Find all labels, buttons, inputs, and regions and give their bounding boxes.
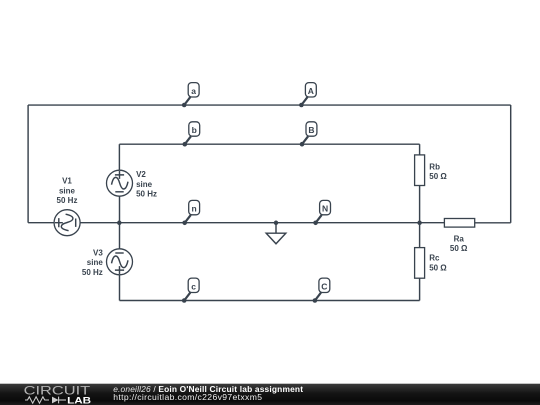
resistor Rb bbox=[415, 155, 425, 186]
svg-text:b: b bbox=[192, 125, 197, 135]
node a bbox=[182, 83, 199, 108]
resistor Rc bbox=[415, 248, 425, 279]
wire V2 top bbox=[118, 144, 120, 170]
wire Rb bottom bbox=[419, 186, 421, 223]
svg-text:V3: V3 bbox=[93, 248, 103, 257]
svg-text:A: A bbox=[308, 86, 314, 96]
junction at ground bbox=[274, 221, 279, 226]
svg-text:50 Ω: 50 Ω bbox=[429, 172, 447, 181]
wire net a top horizontal bbox=[28, 104, 511, 106]
svg-text:N: N bbox=[322, 204, 328, 214]
svg-text:Rc: Rc bbox=[429, 254, 440, 263]
wire Rc bottom bbox=[419, 278, 421, 300]
junction at Rb/Rc/Ra node bbox=[417, 221, 422, 226]
svg-text:50 Ω: 50 Ω bbox=[429, 263, 447, 272]
voltage source V1 bbox=[54, 210, 80, 236]
footer bar bbox=[0, 384, 540, 405]
voltage source V3 bbox=[107, 249, 133, 275]
ground bbox=[266, 223, 286, 244]
wire net n horizontal bbox=[80, 222, 444, 224]
svg-text:http://circuitlab.com/c226v97e: http://circuitlab.com/c226v97etxxm5 bbox=[113, 392, 262, 402]
wire Rc top bbox=[419, 223, 421, 248]
node B bbox=[300, 122, 317, 147]
svg-text:V2: V2 bbox=[136, 170, 146, 179]
voltage source V2 bbox=[107, 170, 133, 196]
svg-text:50 Ω: 50 Ω bbox=[450, 244, 468, 253]
node N bbox=[313, 200, 330, 225]
svg-text:c: c bbox=[191, 281, 196, 291]
svg-text:50 Hz: 50 Hz bbox=[136, 190, 157, 199]
wire V3 bottom bbox=[119, 275, 121, 301]
svg-text:a: a bbox=[191, 86, 196, 96]
logo zigzag and diode bbox=[25, 397, 66, 404]
svg-text:C: C bbox=[321, 281, 327, 291]
node c bbox=[182, 278, 199, 303]
resistor Ra bbox=[444, 219, 474, 228]
svg-text:50 Hz: 50 Hz bbox=[57, 196, 78, 205]
node n bbox=[182, 200, 199, 225]
wire net b horizontal bbox=[119, 143, 419, 145]
svg-text:V1: V1 bbox=[62, 177, 72, 186]
wire net c horizontal bbox=[120, 300, 420, 302]
junction at V1/V2/V3 node bbox=[117, 221, 122, 226]
node b bbox=[183, 122, 200, 147]
wire left vertical bbox=[27, 105, 29, 223]
svg-text:B: B bbox=[308, 125, 314, 135]
svg-text:n: n bbox=[192, 204, 197, 214]
wire Rb top bbox=[419, 144, 421, 155]
svg-text:sine: sine bbox=[136, 180, 153, 189]
wire V2 bottom to V3 top bbox=[119, 196, 121, 249]
wire V1 left bbox=[28, 222, 54, 224]
wire right vertical bbox=[510, 105, 512, 223]
node A bbox=[299, 83, 316, 108]
node C bbox=[313, 278, 330, 303]
svg-text:sine: sine bbox=[59, 186, 76, 195]
wire Ra right bbox=[475, 222, 511, 224]
svg-text:Rb: Rb bbox=[429, 162, 440, 171]
svg-text:50 Hz: 50 Hz bbox=[82, 268, 103, 277]
svg-text:sine: sine bbox=[87, 258, 104, 267]
svg-text:LAB: LAB bbox=[67, 395, 92, 405]
svg-text:Ra: Ra bbox=[454, 234, 465, 243]
